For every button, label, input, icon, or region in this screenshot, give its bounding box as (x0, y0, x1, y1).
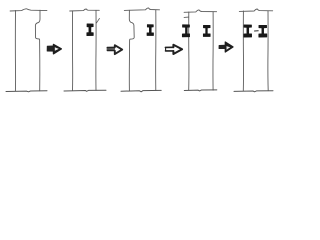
block arrow 4 (219, 42, 233, 52)
wire left edge P4 (188, 12, 190, 90)
I-beam in panel 3 (147, 25, 154, 36)
block arrow 2 (107, 45, 122, 54)
wire right edge P5 (267, 11, 269, 91)
wire top line P4 (184, 10, 217, 12)
wire right edge P3 (155, 10, 157, 91)
wire right edge P2 (95, 10, 97, 90)
column panel 4 (184, 10, 217, 91)
column panel 2 (64, 9, 106, 91)
wire top line P3 (124, 8, 159, 10)
I-beam right panel 5 (259, 25, 267, 37)
wire baseline P4 (184, 90, 217, 91)
wire right edge P4 (212, 12, 214, 90)
I-beam in panel 2 (87, 24, 94, 36)
wire top line P1 (10, 9, 47, 11)
wire top line P2 (70, 9, 100, 11)
block arrow 1 (47, 45, 61, 54)
block arrow 3 (165, 45, 182, 54)
wire top line P5 (239, 9, 272, 11)
dash between I-beams panel 5 (255, 30, 259, 32)
I-beam left (outside) panel 4 (182, 25, 189, 37)
I-beam right panel 4 (203, 25, 210, 36)
wire left edge P3 with notch (129, 10, 134, 91)
wire baseline P2 (64, 90, 106, 91)
I-beam left panel 5 (244, 25, 252, 37)
wire right edge P1 with notch (35, 10, 40, 91)
wire left edge P5 (242, 11, 244, 91)
tick at right edge P2 (96, 18, 99, 23)
wire baseline P3 (121, 90, 161, 91)
wire left edge P1 (14, 10, 16, 91)
bracket dash on left edge P4 (184, 16, 189, 18)
column panel 5 (234, 9, 273, 92)
wire baseline P1 (6, 91, 47, 92)
wire baseline P5 (234, 91, 273, 92)
column panel 1 (6, 9, 47, 92)
column panel 3 (121, 8, 161, 92)
wire left edge P2 (71, 11, 73, 91)
